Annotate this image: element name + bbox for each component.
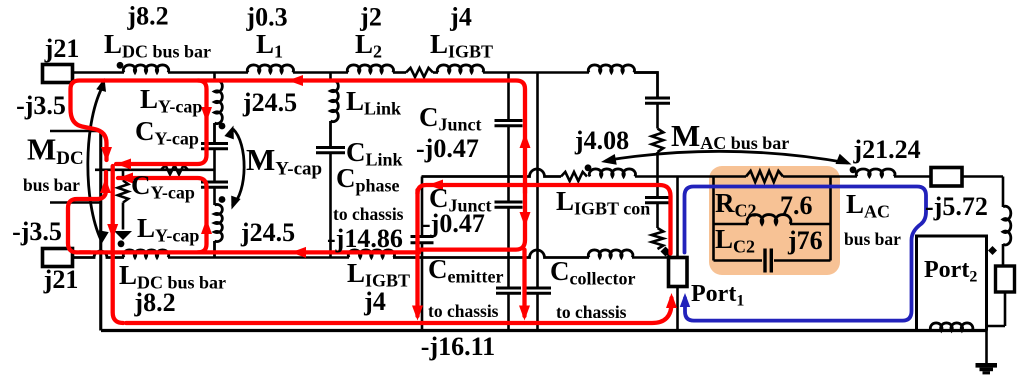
red vertical x417 — [415, 190, 419, 316]
wire (AC to Port1) — [676, 177, 679, 258]
polarity dot of L_Y-cap (upper) — [219, 123, 226, 130]
svg-text:bus bar: bus bar — [844, 229, 901, 249]
svg-text:MDC: MDC — [27, 132, 84, 170]
red arrow down (x106) — [101, 147, 112, 162]
svg-text:MAC bus bar: MAC bus bar — [671, 118, 789, 153]
inductor L_DC bus bar j8.2 (bottom) — [123, 250, 168, 258]
wire — [656, 203, 659, 228]
inductor AC bus bar j21.24 — [856, 169, 895, 177]
inductor L_IGBT j4 (top) — [437, 65, 483, 73]
wire — [507, 293, 510, 330]
wire — [507, 126, 510, 202]
wire — [536, 73, 539, 289]
capacitor C_Y-cap (upper) — [201, 144, 228, 149]
wire — [962, 175, 1003, 178]
red arrow left (mid) — [428, 180, 443, 191]
wire — [714, 175, 747, 178]
svg-text:CY-cap: CY-cap — [135, 116, 199, 149]
svg-text:LDC bus bar: LDC bus bar — [104, 29, 211, 62]
wire — [421, 177, 424, 237]
wire (AC node, with hop over collector line) — [422, 169, 562, 176]
wire (LC2 rung) — [714, 223, 749, 226]
resistor (module, vertical) — [652, 129, 664, 153]
wire — [329, 73, 332, 82]
svg-text:-j0.47: -j0.47 — [422, 209, 485, 238]
resistor (AC bus bar ESR) — [561, 172, 587, 181]
capacitor C_phase to chassis -j14.86 — [411, 237, 434, 243]
svg-text:LLink: LLink — [346, 86, 401, 119]
svg-text:CY-cap: CY-cap — [131, 170, 195, 203]
svg-text:Port2: Port2 — [924, 257, 977, 286]
red arrow up (into Port1) — [666, 293, 677, 308]
polarity dot of L j21.24 — [850, 166, 857, 173]
svg-text:-j3.5: -j3.5 — [16, 91, 66, 120]
capacitor C_Junct -j0.47 (upper) — [495, 121, 523, 126]
svg-text:j2: j2 — [359, 3, 382, 32]
polarity dot of L_DC bus bar (top) — [117, 62, 124, 69]
svg-text:LAC: LAC — [846, 189, 890, 222]
svg-text:j8.2: j8.2 — [133, 288, 175, 317]
polarity diamond (Port2 source) — [988, 246, 997, 255]
node diamond at Port1 top — [661, 247, 671, 257]
wire — [213, 149, 216, 182]
red arrow left (y164) — [116, 159, 131, 170]
wire — [894, 175, 931, 178]
capacitor C_Junct -j0.47 (lower) — [495, 202, 523, 207]
wire — [507, 73, 510, 121]
wire — [421, 243, 424, 331]
svg-text:7.6: 7.6 — [780, 191, 813, 220]
resistor (Y-cap damping) — [161, 165, 188, 174]
inductor L2 j2 — [347, 65, 393, 73]
capacitor C2 — [765, 249, 771, 273]
wire — [213, 73, 216, 82]
wire — [213, 187, 216, 205]
wire (CC2 rung) — [714, 259, 763, 262]
polarity dot of L_DC bus bar (bottom) — [118, 240, 125, 247]
wire — [393, 71, 406, 74]
svg-text:j0.3: j0.3 — [245, 3, 287, 32]
svg-text:LY-cap: LY-cap — [137, 213, 199, 246]
svg-text:j21.24: j21.24 — [852, 135, 920, 164]
vertical wire (DC- left bus) — [99, 131, 102, 331]
wire — [985, 326, 988, 363]
polarity dot of L_Y-cap (lower) — [219, 196, 226, 203]
inductor L_IGBT j4 (bottom) — [348, 250, 394, 258]
wire — [1002, 244, 1005, 266]
wire — [666, 252, 672, 258]
red arrow up (x206 lower) — [201, 219, 212, 234]
svg-text:-j0.47: -j0.47 — [416, 134, 479, 163]
port box Port2 outline — [917, 236, 987, 331]
svg-text:LY-cap: LY-cap — [140, 84, 202, 117]
wire (RC2 right leg) — [829, 177, 832, 261]
wire — [1002, 177, 1005, 208]
node wire to Y-cap midpoint — [95, 169, 215, 172]
inductor L_Y-cap j24.5 (lower) — [215, 204, 223, 241]
mutual inductance arc M_DC bus bar — [88, 84, 104, 240]
corner wire (top-right) — [634, 73, 658, 99]
wire — [1004, 292, 1007, 326]
svg-text:j21: j21 — [44, 34, 80, 63]
wire — [483, 71, 589, 74]
capacitor (IGBT module) — [645, 98, 670, 103]
red bottom-left DM line — [80, 250, 419, 254]
capacitor C_emitter to chassis — [496, 288, 521, 293]
red arrow down (x525 bottom) — [519, 306, 530, 321]
svg-text:j4.08: j4.08 — [574, 126, 629, 155]
inductor L1 j0.3 — [247, 65, 293, 73]
svg-text:j8.2: j8.2 — [126, 2, 168, 31]
svg-text:j4: j4 — [449, 3, 472, 32]
wire — [632, 256, 669, 259]
wire — [536, 293, 539, 330]
wire — [168, 71, 248, 74]
wire — [73, 71, 125, 74]
mutual inductance arc M_Y-cap — [232, 129, 244, 206]
blue measurement loop — [685, 187, 927, 321]
wire (with hop over collector line) — [393, 250, 589, 257]
red arrow left (top loop) — [288, 75, 303, 86]
capacitor C_Y-cap (lower) — [201, 182, 228, 187]
svg-text:j24.5: j24.5 — [240, 218, 295, 247]
inductor (IGBT module top) — [588, 65, 634, 73]
red arrow down (x417 bottom) — [412, 306, 423, 321]
svg-text:to chassis: to chassis — [556, 302, 627, 322]
red arrow down (x206 upper) — [201, 107, 212, 122]
wire — [634, 71, 658, 74]
red noise path: top DM loop — [71, 81, 526, 194]
svg-text:-j3.5: -j3.5 — [12, 217, 62, 246]
element box (source impedance) — [996, 266, 1015, 292]
wire — [656, 103, 659, 128]
highlight box for R_C2/L_C2 parallel branch — [709, 166, 840, 275]
red line to Y-cap mid (upper) — [116, 81, 207, 165]
chassis rail — [101, 329, 987, 332]
red arrow down (x525 mid) — [520, 212, 531, 227]
rail left corner — [100, 131, 103, 331]
wire (C_phase to chassis) — [329, 153, 332, 258]
resistor to ground (vertical) — [122, 170, 125, 181]
svg-text:-j5.72: -j5.72 — [925, 192, 988, 221]
wire (with hop over DC- bus) — [73, 251, 125, 257]
svg-text:CJunct: CJunct — [419, 102, 482, 135]
svg-text:j21: j21 — [43, 265, 79, 294]
svg-text:Ccollector: Ccollector — [550, 256, 635, 289]
blue arrow up (into Port1) — [680, 293, 690, 307]
svg-text:MY-cap: MY-cap — [246, 142, 322, 180]
polarity dot of L_AC j4.08 — [585, 164, 592, 171]
capacitor C_Link — [316, 148, 345, 153]
svg-text:to chassis: to chassis — [333, 204, 404, 224]
resistor (snubber, vertical) — [652, 228, 664, 249]
red vertical x525 — [419, 185, 525, 316]
red mid horizontal (to Port1) — [418, 185, 671, 254]
mutual inductance arc M_AC bus bar — [606, 151, 848, 163]
svg-text:Port1: Port1 — [691, 281, 744, 310]
inductor L_AC bus bar j4.08 — [589, 169, 635, 177]
svg-text:LIGBT: LIGBT — [430, 29, 493, 62]
red bottom line to Port1 — [126, 298, 672, 323]
svg-text:LIGBT: LIGBT — [347, 258, 410, 291]
red arrow up (-j3.5 loop) — [100, 178, 111, 193]
wire — [656, 152, 659, 198]
wire — [635, 175, 714, 178]
red arrow up (x525) — [520, 133, 531, 148]
inductor L_DC bus bar j8.2 (top) — [123, 65, 168, 73]
inductor L_Link — [331, 80, 339, 121]
ground symbol (Y-cap branch) — [114, 231, 132, 240]
svg-text:j4: j4 — [363, 287, 386, 316]
svg-text:L2: L2 — [355, 29, 382, 62]
resistor R_C2 7.6 — [746, 171, 783, 182]
port j21 (bottom-left) — [43, 249, 73, 267]
svg-text:LIGBT con: LIGBT con — [556, 186, 650, 219]
wire — [507, 207, 510, 288]
ground symbol (chassis) — [976, 363, 998, 374]
inductor (IGBT module bottom) — [588, 250, 633, 258]
red arrow left (bottom DM) — [291, 247, 306, 258]
svg-text:bus bar: bus bar — [23, 175, 80, 195]
M_DC stub (lower) — [50, 201, 101, 204]
inductor L_Y-cap j24.5 (upper) — [215, 80, 223, 123]
capacitor C_collector to chassis — [524, 288, 551, 293]
wire — [676, 287, 679, 331]
svg-text:-j14.86: -j14.86 — [327, 224, 403, 253]
svg-text:L1: L1 — [256, 29, 283, 62]
svg-text:to chassis: to chassis — [428, 301, 499, 321]
red arrow down (x112) — [107, 224, 118, 239]
resistor (DC link ESR) — [406, 68, 433, 77]
red -j3.5 lower loop — [68, 172, 106, 252]
red CM drop (x112) — [113, 166, 124, 323]
wire — [433, 71, 438, 74]
red arrow left (y178) — [118, 173, 133, 184]
svg-text:j76: j76 — [787, 226, 823, 255]
wire (RC2 left leg) — [712, 177, 715, 261]
inductor (AC line right) — [1003, 206, 1011, 245]
inductor (Port2 ground lead) — [930, 323, 972, 331]
capacitor L_IGBT con branch — [645, 198, 670, 203]
wire — [293, 71, 348, 74]
svg-text:-j16.11: -j16.11 — [421, 332, 495, 361]
svg-text:j24.5: j24.5 — [242, 88, 297, 117]
port box Port1 — [669, 258, 688, 287]
wire — [168, 256, 349, 259]
M_DC stub (upper) — [50, 130, 101, 133]
red line to Y-cap mid (lower) — [118, 178, 207, 252]
port j21 (top-left) — [43, 65, 73, 83]
inductor L_C2 j76 — [747, 215, 791, 224]
element box -j5.72 — [931, 168, 962, 187]
